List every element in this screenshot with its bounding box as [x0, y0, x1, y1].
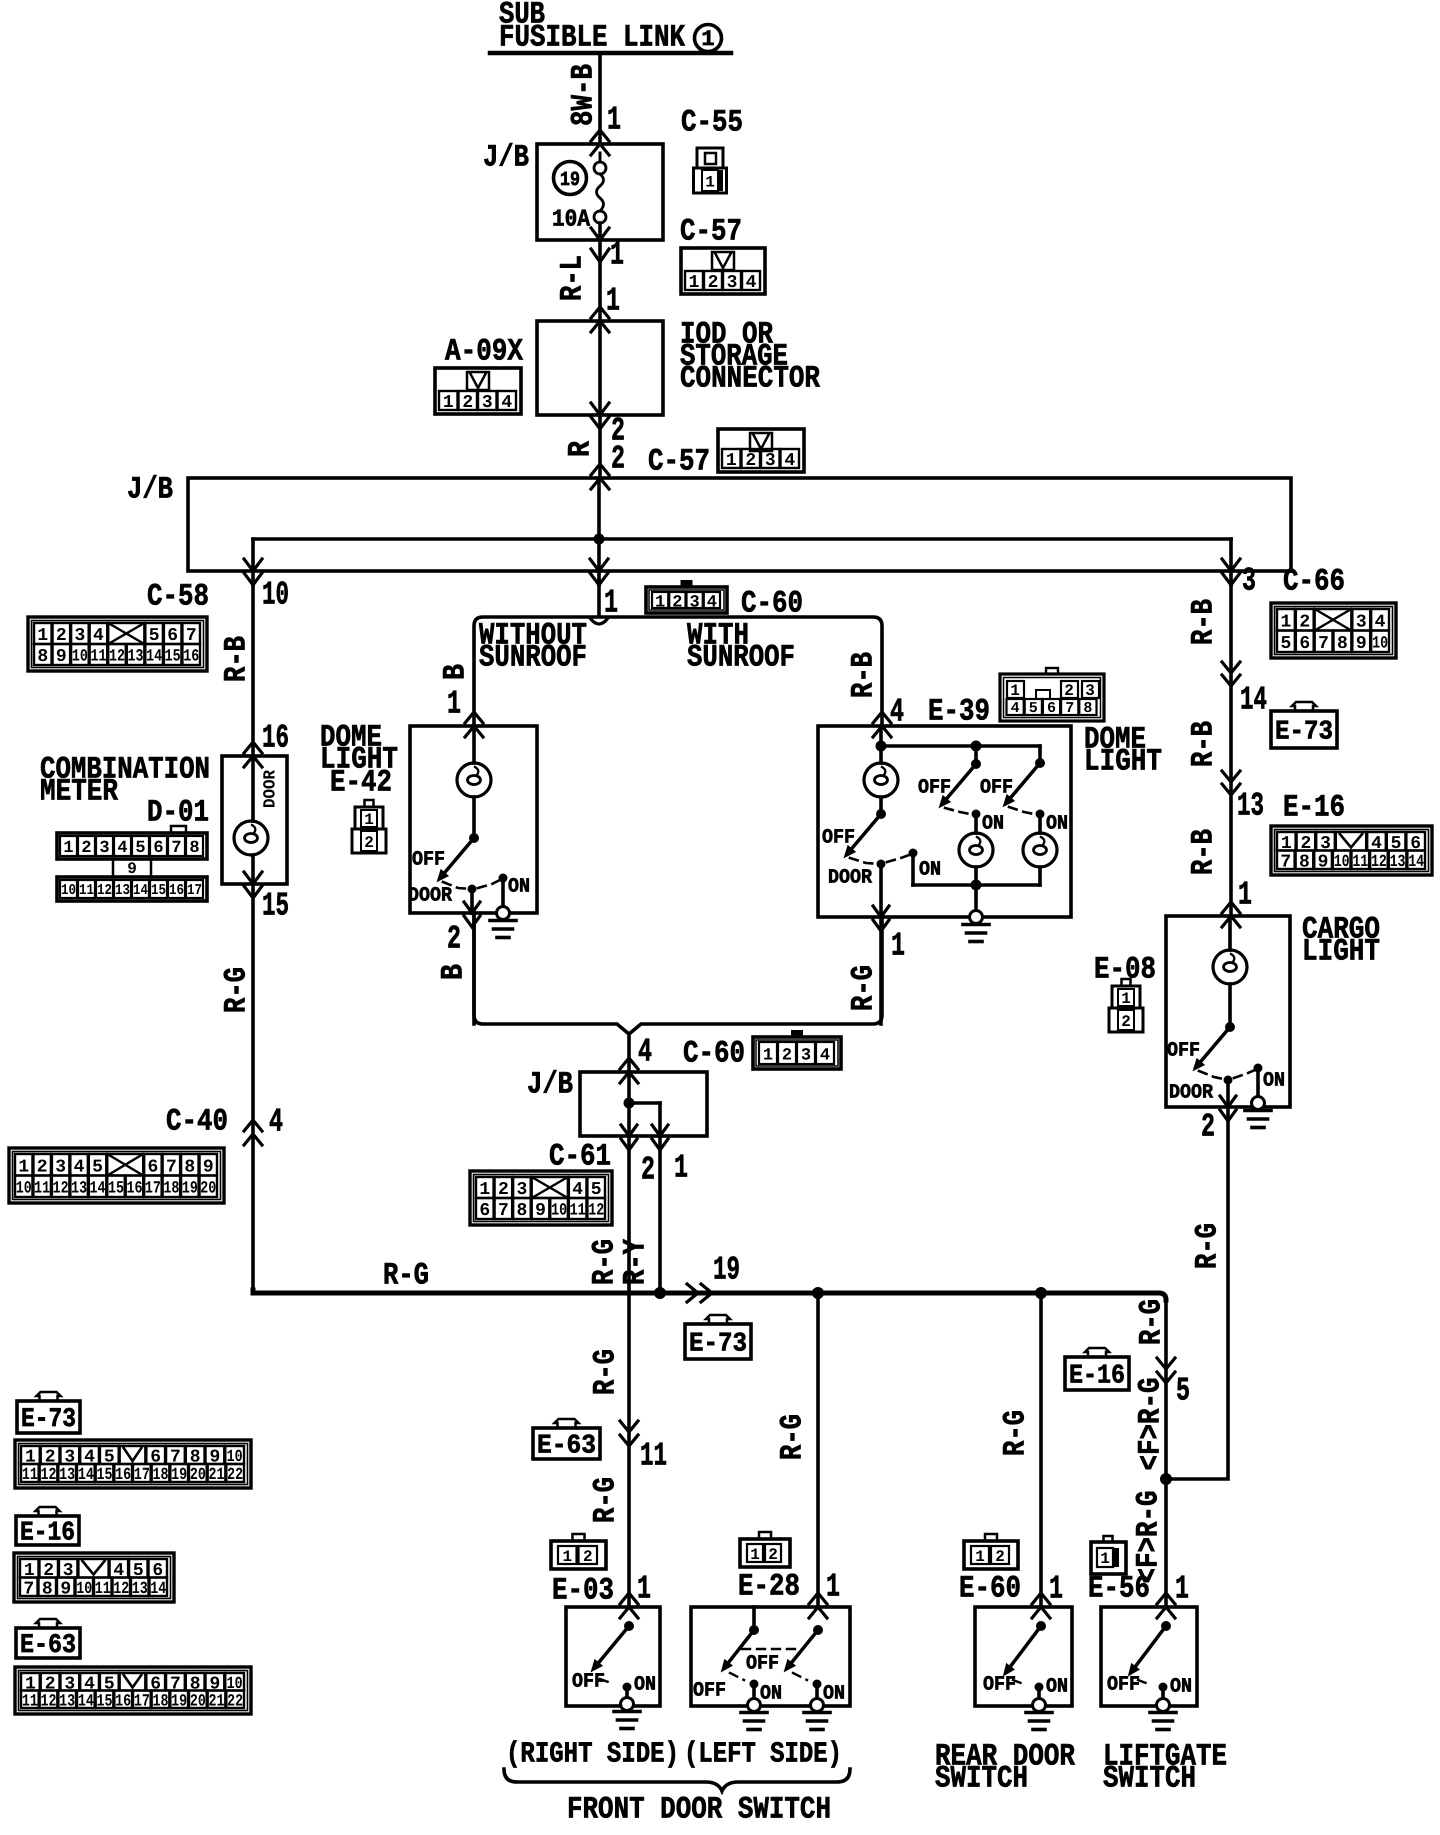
svg-text:5: 5 — [1029, 700, 1038, 717]
svg-text:2: 2 — [1201, 1109, 1215, 1146]
svg-text:5: 5 — [92, 1157, 103, 1177]
svg-text:2: 2 — [641, 1152, 655, 1189]
svg-text:<F>R-G: <F>R-G — [1134, 1378, 1169, 1471]
svg-text:E-42: E-42 — [330, 765, 392, 800]
svg-text:R-B: R-B — [1187, 721, 1222, 767]
svg-text:10: 10 — [262, 577, 289, 614]
svg-text:OFF: OFF — [572, 1670, 605, 1693]
svg-text:1: 1 — [1175, 1571, 1189, 1608]
svg-text:1: 1 — [674, 1150, 688, 1187]
svg-text:2: 2 — [995, 1548, 1005, 1566]
svg-text:2: 2 — [611, 441, 625, 478]
svg-text:7: 7 — [1318, 634, 1329, 654]
svg-text:6: 6 — [1047, 700, 1056, 717]
svg-text:5: 5 — [1281, 634, 1292, 654]
svg-text:E-39: E-39 — [928, 694, 990, 729]
svg-text:13: 13 — [115, 882, 130, 899]
svg-text:20: 20 — [190, 1466, 206, 1485]
svg-text:14: 14 — [133, 882, 148, 899]
svg-text:9: 9 — [203, 1157, 214, 1177]
svg-text:CONNECTOR: CONNECTOR — [680, 361, 820, 396]
svg-text:7: 7 — [171, 839, 181, 858]
svg-text:2: 2 — [583, 1548, 593, 1566]
svg-text:3: 3 — [1085, 682, 1095, 700]
svg-text:14: 14 — [78, 1692, 94, 1711]
svg-text:15: 15 — [262, 888, 289, 925]
svg-text:12: 12 — [41, 1692, 57, 1711]
svg-text:OFF: OFF — [1107, 1673, 1140, 1696]
svg-text:8: 8 — [42, 1579, 53, 1599]
svg-text:E-16: E-16 — [20, 1519, 75, 1549]
svg-text:11: 11 — [640, 1438, 667, 1475]
svg-text:8: 8 — [189, 839, 199, 858]
svg-text:R-G: R-G — [383, 1258, 429, 1293]
svg-text:J/B: J/B — [483, 140, 529, 175]
svg-text:2: 2 — [1121, 1013, 1131, 1031]
svg-text:DOOR: DOOR — [1169, 1081, 1213, 1104]
svg-text:8W-B: 8W-B — [567, 64, 602, 126]
svg-text:R-G: R-G — [220, 967, 255, 1013]
svg-text:1: 1 — [610, 237, 624, 274]
svg-text:10: 10 — [72, 648, 88, 667]
svg-text:E-73: E-73 — [21, 1405, 76, 1435]
svg-text:15: 15 — [108, 1179, 124, 1198]
svg-text:OFF: OFF — [918, 776, 951, 799]
svg-text:11: 11 — [1352, 853, 1368, 872]
svg-text:ON: ON — [823, 1682, 845, 1705]
svg-text:1: 1 — [689, 273, 700, 293]
svg-text:SWITCH: SWITCH — [1103, 1761, 1196, 1796]
svg-text:METER: METER — [40, 774, 118, 809]
svg-text:1: 1 — [447, 686, 461, 723]
svg-text:10: 10 — [1334, 853, 1350, 872]
svg-text:7: 7 — [498, 1201, 509, 1221]
svg-text:E-73: E-73 — [689, 1330, 747, 1360]
svg-text:4: 4 — [784, 451, 795, 471]
svg-text:B: B — [437, 964, 472, 980]
svg-text:ON: ON — [1046, 812, 1068, 835]
svg-text:8: 8 — [1299, 852, 1310, 872]
svg-text:8: 8 — [1337, 634, 1348, 654]
svg-text:OFF: OFF — [1167, 1039, 1200, 1062]
svg-text:20: 20 — [190, 1692, 206, 1711]
svg-text:1: 1 — [637, 1571, 651, 1608]
svg-text:4: 4 — [117, 839, 127, 858]
svg-text:19: 19 — [171, 1692, 187, 1711]
svg-text:2: 2 — [81, 839, 91, 858]
svg-text:4: 4 — [269, 1104, 283, 1141]
svg-text:3: 3 — [727, 273, 738, 293]
svg-text:1: 1 — [701, 27, 714, 52]
svg-text:1: 1 — [705, 174, 715, 192]
svg-text:SWITCH: SWITCH — [935, 1761, 1028, 1796]
svg-text:SUNROOF: SUNROOF — [479, 640, 587, 675]
svg-text:1: 1 — [826, 1569, 840, 1606]
svg-text:OFF: OFF — [746, 1652, 779, 1675]
svg-text:11: 11 — [79, 882, 94, 899]
svg-text:7: 7 — [1280, 852, 1291, 872]
svg-text:10: 10 — [61, 882, 76, 899]
svg-text:1: 1 — [750, 1546, 760, 1564]
svg-text:3: 3 — [55, 1157, 66, 1177]
svg-text:R-G: R-G — [999, 1410, 1034, 1456]
svg-text:2: 2 — [745, 451, 756, 471]
svg-text:12: 12 — [41, 1466, 57, 1485]
svg-text:12: 12 — [588, 1202, 604, 1221]
svg-text:9: 9 — [1318, 852, 1329, 872]
svg-text:ON: ON — [1046, 1675, 1068, 1698]
svg-text:(RIGHT SIDE): (RIGHT SIDE) — [506, 1737, 679, 1770]
svg-text:4: 4 — [501, 393, 512, 413]
svg-text:ON: ON — [508, 875, 530, 898]
svg-text:(LEFT SIDE): (LEFT SIDE) — [684, 1737, 842, 1770]
svg-text:15: 15 — [97, 1692, 113, 1711]
svg-text:4: 4 — [746, 273, 757, 293]
svg-text:R-B: R-B — [1187, 829, 1222, 875]
svg-text:E-60: E-60 — [959, 1571, 1021, 1606]
svg-text:13: 13 — [59, 1466, 75, 1485]
svg-text:13: 13 — [128, 648, 144, 667]
svg-text:16: 16 — [262, 720, 289, 757]
svg-text:19: 19 — [560, 169, 580, 192]
svg-text:1: 1 — [726, 451, 737, 471]
svg-text:1: 1 — [1049, 1571, 1063, 1608]
svg-text:E-73: E-73 — [1275, 718, 1333, 748]
svg-text:5: 5 — [1176, 1373, 1190, 1410]
svg-text:13: 13 — [1390, 853, 1406, 872]
svg-text:9: 9 — [1356, 634, 1367, 654]
svg-text:OFF: OFF — [822, 826, 855, 849]
svg-text:E-63: E-63 — [537, 1432, 596, 1462]
svg-text:OFF: OFF — [693, 1679, 726, 1702]
svg-text:13: 13 — [1237, 788, 1264, 825]
svg-text:2: 2 — [1064, 682, 1074, 700]
svg-text:R-B: R-B — [1187, 599, 1222, 645]
svg-text:10: 10 — [551, 1202, 567, 1221]
svg-text:1: 1 — [1010, 682, 1020, 700]
svg-text:2: 2 — [1299, 612, 1310, 632]
svg-text:R: R — [564, 441, 599, 457]
svg-text:8: 8 — [1083, 700, 1092, 717]
svg-text:DOOR: DOOR — [828, 866, 872, 889]
svg-text:1: 1 — [1281, 612, 1292, 632]
svg-text:J/B: J/B — [527, 1067, 573, 1102]
svg-text:<F>R-G: <F>R-G — [1132, 1491, 1167, 1584]
svg-text:C-60: C-60 — [683, 1036, 745, 1071]
svg-text:8: 8 — [184, 1157, 195, 1177]
svg-text:1: 1 — [562, 1548, 572, 1566]
svg-text:ON: ON — [1263, 1069, 1285, 1092]
svg-text:C-57: C-57 — [680, 214, 742, 249]
svg-text:ON: ON — [919, 858, 941, 881]
svg-text:R-B: R-B — [220, 636, 255, 682]
svg-text:LIGHT: LIGHT — [1302, 934, 1380, 969]
svg-text:R-L: R-L — [556, 255, 591, 301]
svg-text:15: 15 — [165, 648, 181, 667]
svg-text:13: 13 — [71, 1179, 87, 1198]
svg-text:19: 19 — [171, 1466, 187, 1485]
svg-text:3: 3 — [690, 594, 700, 613]
svg-text:C-61: C-61 — [549, 1139, 611, 1174]
svg-text:6: 6 — [148, 1157, 159, 1177]
svg-text:15: 15 — [151, 882, 166, 899]
svg-text:13: 13 — [132, 1580, 148, 1599]
svg-text:12: 12 — [1371, 853, 1387, 872]
svg-text:R-G: R-G — [1135, 1299, 1170, 1345]
svg-text:2: 2 — [364, 834, 374, 852]
svg-text:10A: 10A — [552, 207, 591, 234]
svg-text:B: B — [439, 664, 474, 680]
svg-text:12: 12 — [53, 1179, 69, 1198]
svg-text:R-G: R-G — [776, 1414, 811, 1460]
svg-text:16: 16 — [183, 648, 199, 667]
svg-text:ON: ON — [982, 812, 1004, 835]
svg-text:8: 8 — [517, 1201, 528, 1221]
svg-text:R-B: R-B — [847, 652, 882, 698]
svg-text:1: 1 — [607, 102, 621, 139]
svg-text:10: 10 — [1372, 634, 1388, 653]
svg-text:17: 17 — [134, 1466, 150, 1485]
svg-text:3: 3 — [765, 451, 776, 471]
svg-text:17: 17 — [145, 1179, 161, 1198]
svg-text:11: 11 — [34, 1179, 50, 1198]
svg-text:E-56: E-56 — [1088, 1571, 1150, 1606]
svg-text:2: 2 — [447, 921, 461, 958]
svg-text:14: 14 — [1408, 853, 1424, 872]
svg-text:7: 7 — [166, 1157, 177, 1177]
svg-text:16: 16 — [126, 1179, 142, 1198]
svg-text:18: 18 — [153, 1466, 169, 1485]
svg-text:2: 2 — [708, 273, 719, 293]
svg-text:2: 2 — [768, 1546, 778, 1564]
svg-text:1: 1 — [18, 1157, 29, 1177]
svg-text:14: 14 — [150, 1580, 166, 1599]
svg-text:C-55: C-55 — [681, 105, 743, 140]
svg-text:OFF: OFF — [412, 848, 445, 871]
svg-text:C-58: C-58 — [147, 579, 209, 614]
svg-text:12: 12 — [113, 1580, 129, 1599]
svg-text:9: 9 — [535, 1201, 546, 1221]
svg-text:13: 13 — [59, 1692, 75, 1711]
svg-text:OFF: OFF — [983, 1673, 1016, 1696]
svg-text:18: 18 — [153, 1692, 169, 1711]
svg-text:8: 8 — [37, 647, 48, 667]
svg-text:11: 11 — [22, 1692, 38, 1711]
svg-text:4: 4 — [1011, 700, 1020, 717]
svg-text:1: 1 — [1100, 1550, 1110, 1568]
svg-text:14: 14 — [90, 1179, 106, 1198]
svg-text:22: 22 — [227, 1466, 243, 1485]
svg-text:3: 3 — [801, 1047, 811, 1066]
svg-text:15: 15 — [97, 1466, 113, 1485]
svg-text:FUSIBLE LINK: FUSIBLE LINK — [499, 20, 685, 55]
svg-text:1: 1 — [443, 393, 454, 413]
svg-text:16: 16 — [169, 882, 184, 899]
svg-text:14: 14 — [78, 1466, 94, 1485]
svg-text:12: 12 — [97, 882, 112, 899]
svg-text:C-57: C-57 — [648, 444, 710, 479]
svg-text:4: 4 — [638, 1034, 652, 1071]
svg-text:4: 4 — [1375, 612, 1386, 632]
svg-text:9: 9 — [56, 647, 67, 667]
svg-text:2: 2 — [37, 1157, 48, 1177]
svg-text:R-G: R-G — [588, 1239, 623, 1285]
svg-text:11: 11 — [90, 648, 106, 667]
svg-text:11: 11 — [95, 1580, 111, 1599]
svg-text:10: 10 — [76, 1580, 92, 1599]
svg-text:11: 11 — [570, 1202, 586, 1221]
svg-text:DOOR: DOOR — [262, 769, 281, 808]
svg-text:2: 2 — [462, 393, 473, 413]
svg-text:5: 5 — [135, 839, 145, 858]
svg-text:SUNROOF: SUNROOF — [687, 640, 795, 675]
svg-text:2: 2 — [672, 594, 682, 613]
svg-text:C-60: C-60 — [741, 586, 803, 621]
svg-text:1: 1 — [655, 594, 665, 613]
svg-text:3: 3 — [99, 839, 109, 858]
svg-text:19: 19 — [713, 1252, 740, 1289]
svg-text:3: 3 — [1242, 563, 1256, 600]
svg-text:18: 18 — [163, 1179, 179, 1198]
svg-text:6: 6 — [1299, 634, 1310, 654]
svg-text:7: 7 — [23, 1579, 34, 1599]
svg-text:ON: ON — [760, 1682, 782, 1705]
svg-text:C-40: C-40 — [166, 1104, 228, 1139]
svg-text:LIGHT: LIGHT — [1084, 744, 1162, 779]
svg-text:20: 20 — [200, 1179, 216, 1198]
svg-text:1: 1 — [763, 1047, 773, 1066]
svg-text:E-63: E-63 — [20, 1631, 76, 1661]
svg-text:C-66: C-66 — [1283, 564, 1345, 599]
svg-text:3: 3 — [482, 393, 493, 413]
svg-text:J/B: J/B — [127, 472, 173, 507]
svg-text:17: 17 — [187, 882, 202, 899]
svg-text:FRONT DOOR SWITCH: FRONT DOOR SWITCH — [567, 1792, 831, 1827]
svg-text:3: 3 — [1356, 612, 1367, 632]
svg-text:7: 7 — [1065, 700, 1074, 717]
svg-text:R-G: R-G — [589, 1477, 624, 1523]
svg-text:4: 4 — [820, 1047, 830, 1066]
svg-text:22: 22 — [227, 1692, 243, 1711]
svg-text:21: 21 — [209, 1692, 225, 1711]
svg-text:17: 17 — [134, 1692, 150, 1711]
svg-text:16: 16 — [115, 1692, 131, 1711]
svg-text:14: 14 — [1240, 682, 1267, 719]
svg-text:1: 1 — [606, 283, 620, 320]
svg-text:9: 9 — [60, 1579, 71, 1599]
svg-text:R-G: R-G — [1191, 1223, 1226, 1269]
svg-text:E-16: E-16 — [1283, 790, 1345, 825]
svg-text:1: 1 — [891, 928, 905, 965]
svg-text:14: 14 — [146, 648, 162, 667]
svg-text:19: 19 — [182, 1179, 198, 1198]
svg-text:4: 4 — [707, 594, 717, 613]
svg-text:2: 2 — [782, 1047, 792, 1066]
svg-text:E-16: E-16 — [1069, 1362, 1125, 1392]
svg-text:ON: ON — [1170, 1675, 1192, 1698]
svg-text:R-G: R-G — [589, 1349, 624, 1395]
svg-text:21: 21 — [209, 1466, 225, 1485]
svg-text:E-03: E-03 — [552, 1573, 614, 1608]
svg-text:6: 6 — [153, 839, 163, 858]
svg-text:1: 1 — [1238, 877, 1252, 914]
svg-text:ON: ON — [634, 1673, 656, 1696]
svg-text:12: 12 — [109, 648, 125, 667]
svg-text:6: 6 — [479, 1201, 490, 1221]
svg-text:OFF: OFF — [980, 776, 1013, 799]
svg-text:A-09X: A-09X — [445, 334, 523, 369]
svg-text:10: 10 — [16, 1179, 32, 1198]
svg-text:R-G: R-G — [847, 965, 882, 1011]
svg-text:16: 16 — [115, 1466, 131, 1485]
svg-text:E-08: E-08 — [1094, 952, 1156, 987]
svg-text:1: 1 — [975, 1548, 985, 1566]
svg-text:4: 4 — [74, 1157, 85, 1177]
svg-text:11: 11 — [22, 1466, 38, 1485]
svg-text:E-28: E-28 — [738, 1569, 800, 1604]
svg-text:DOOR: DOOR — [408, 884, 452, 907]
svg-text:R-Y: R-Y — [619, 1239, 654, 1285]
svg-text:1: 1 — [63, 839, 73, 858]
